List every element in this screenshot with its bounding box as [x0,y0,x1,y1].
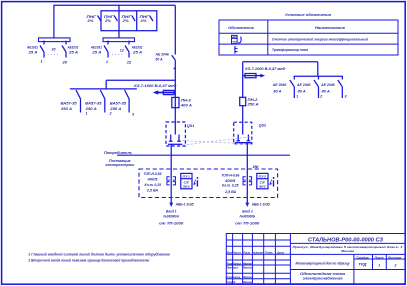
svg-text:80 А: 80 А [298,89,306,93]
svg-text:Подп.: Подп. [265,251,273,255]
svg-text:Условные обозначения: Условные обозначения [285,13,332,17]
svg-text:1: 1 [296,94,298,98]
svg-text:400/5: 400/5 [224,179,236,183]
svg-text:Лист: Лист [242,251,251,255]
svg-text:2%: 2% [104,19,112,23]
svg-text:Утверд.: Утверд. [227,280,236,284]
svg-text:Иванов: Иванов [243,280,252,284]
svg-text:Проверил: Проверил [227,266,239,270]
svg-text:АЕ 2046: АЕ 2046 [320,83,335,87]
svg-text:Иванов: Иванов [243,261,252,265]
svg-text:Листов: Листов [387,255,402,259]
svg-text:250 А: 250 А [60,107,73,111]
svg-text:Дата: Дата [276,251,285,255]
svg-text:50 А: 50 А [156,57,163,61]
svg-text:Ввод 2: Ввод 2 [242,209,253,213]
svg-text:. . . .: . . . . [48,52,59,56]
svg-text:Однолинейная схема: Однолинейная схема [300,272,345,276]
svg-text:Ввод 1: Ввод 1 [166,209,177,213]
svg-text:2 Вторичной ввода линий показа: 2 Вторичной ввода линий показана граница… [28,259,151,263]
svg-text:25 А: 25 А [91,50,102,54]
svg-text:Обозначение: Обозначение [228,26,254,30]
svg-text:АЕ1031: АЕ1031 [26,46,38,50]
svg-text:Примус, Международная 5 многок: Примус, Международная 5 многоквартирный … [293,245,403,249]
svg-text:1: 1 [86,111,88,115]
svg-text:Наименование: Наименование [315,26,345,30]
svg-text:2,5 ВА: 2,5 ВА [224,190,236,194]
svg-text:ВА57-35: ВА57-35 [61,102,78,106]
svg-text:80 А: 80 А [322,89,330,93]
svg-text:3: 3 [345,94,347,98]
svg-text:250 А: 250 А [109,107,122,111]
svg-text:электроснабжения: электроснабжения [303,277,343,281]
svg-text:№000000А: №000000А [163,215,180,219]
svg-text:Лист: Лист [373,255,384,259]
svg-text:час: час [232,41,237,44]
svg-text:ТРД: ТРД [358,263,367,267]
svg-text:2%: 2% [122,19,130,23]
svg-text:250 А: 250 А [246,102,259,106]
svg-text:QS2: QS2 [259,124,267,128]
svg-text:2%: 2% [86,19,94,23]
svg-text:Стадия: Стадия [357,255,369,259]
svg-text:№000000Б: №000000Б [239,215,256,219]
svg-text:2: 2 [109,111,112,115]
svg-text:25 А: 25 А [68,50,79,54]
svg-text:20: 20 [61,60,67,64]
svg-text:ТОП-Н-0,66: ТОП-Н-0,66 [221,173,240,177]
svg-text:2,5 ВА: 2,5 ВА [146,188,158,192]
svg-text:Изм: Изм [227,251,232,255]
svg-text:2%: 2% [139,19,147,23]
svg-text:1: 1 [378,264,380,268]
svg-text:Трансформатор тока: Трансформатор тока [272,48,308,52]
svg-text:АВБ-1 3х95: АВБ-1 3х95 [175,203,195,207]
svg-text:СТАЛЬНОВ-Р00-00-0000 СЗ: СТАЛЬНОВ-Р00-00-0000 СЗ [308,238,384,244]
svg-text:1 Главный вводной силовой лини: 1 Главный вводной силовой линий должно б… [28,252,170,256]
svg-text:1: 1 [106,60,108,64]
svg-text:1: 1 [41,59,43,63]
svg-text:12: 12 [127,61,132,65]
svg-text:Иванов: Иванов [243,275,252,279]
svg-text:Кол.уч: Кол.уч [234,251,242,255]
svg-text:Кл.т. 0,25: Кл.т. 0,25 [222,184,239,188]
svg-text:Разработал: Разработал [227,261,242,265]
svg-text:301: 301 [259,185,267,189]
svg-text:Москва: Москва [341,249,354,253]
svg-text:ПУ2: ПУ2 [259,175,267,179]
svg-text:2: 2 [319,94,322,98]
svg-text:от ТП-1000: от ТП-1000 [159,221,183,225]
svg-text:Кл.т. 0,25: Кл.т. 0,25 [145,183,162,187]
svg-text:Потребитель: Потребитель [104,151,132,155]
svg-text:электроэнергии: электроэнергии [105,163,135,167]
svg-text:ПН-2: ПН-2 [181,98,191,102]
svg-text:КЗ-7-1000 В-0,47 мкФ: КЗ-7-1000 В-0,47 мкФ [134,84,176,88]
svg-text:АЕ1031: АЕ1031 [131,46,143,50]
svg-text:кВт: кВт [232,35,238,39]
svg-text:ВА57-35: ВА57-35 [85,102,102,106]
svg-text:Иванов: Иванов [243,266,252,270]
svg-text:ВА57-35: ВА57-35 [110,102,127,106]
svg-text:Многоквартирный дом по образцу: Многоквартирный дом по образцу [296,262,351,266]
svg-text:250 А: 250 А [85,107,98,111]
svg-text:АВБ-1 3х95: АВБ-1 3х95 [251,203,271,207]
svg-text:от ТП-1000: от ТП-1000 [235,221,259,225]
svg-text:25 А: 25 А [27,50,38,54]
svg-text:Счетчик электрической энергии: Счетчик электрической энергии многофункц… [272,38,369,42]
svg-text:АЕ 2046: АЕ 2046 [296,83,311,87]
svg-text:КЗ-7-1000 В-0,47 мкФ: КЗ-7-1000 В-0,47 мкФ [245,67,285,71]
svg-text:ТОП-Н-0,66: ТОП-Н-0,66 [144,172,163,176]
svg-text:ИК: ИК [253,165,260,169]
svg-text:400 А: 400 А [180,104,193,108]
svg-text:АЕ1031: АЕ1031 [90,46,102,50]
svg-text:400/5: 400/5 [146,177,158,181]
svg-text:ПУ1: ПУ1 [183,175,191,179]
svg-text:QS1: QS1 [187,124,195,128]
svg-text:2: 2 [394,264,397,268]
svg-text:. . . .: . . . . [112,52,123,56]
svg-text:АЕ 2046: АЕ 2046 [272,83,287,87]
svg-text:25 А: 25 А [132,50,143,54]
svg-text:301: 301 [183,185,191,189]
svg-text:АЕ1031: АЕ1031 [67,46,79,50]
svg-text:АЕ 2046: АЕ 2046 [155,52,170,56]
svg-text:№докум: №докум [253,251,263,255]
svg-text:3: 3 [132,112,134,116]
svg-text:80 А: 80 А [273,89,281,93]
svg-text:Н.контроль: Н.контроль [227,275,241,279]
